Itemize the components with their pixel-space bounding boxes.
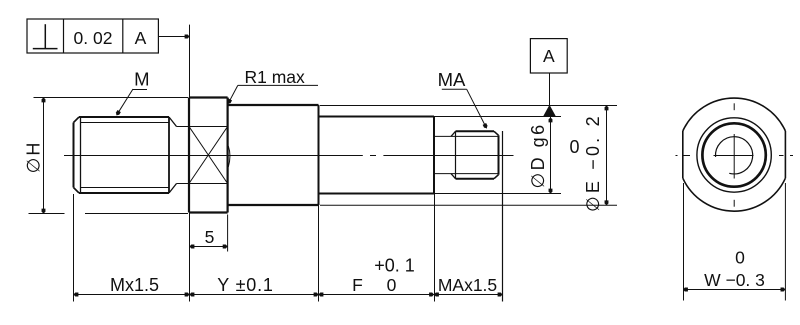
collar outline — [189, 98, 228, 213]
dimension E arrow up — [605, 106, 609, 111]
dimension E extension bottom — [320, 204, 617, 206]
dimension 5 arrow right — [223, 245, 228, 249]
svg-text:M: M — [134, 69, 149, 90]
chain extension line right — [502, 131, 504, 302]
dimension W extension right — [784, 183, 786, 301]
chain arrows at collar left — [185, 293, 190, 297]
dimension H extension top — [34, 97, 189, 99]
svg-text:∅H: ∅H — [24, 141, 44, 174]
dimension 5 line — [189, 246, 228, 248]
end view horizontal centerline right dash — [779, 155, 784, 157]
extension line from collar left face up to tolerance leader — [189, 25, 191, 97]
dimension D extension bottom — [434, 193, 561, 195]
large cylinder top — [228, 104, 319, 106]
thread MA runout bottom — [451, 174, 456, 179]
dimension H extension bottom — [29, 213, 65, 215]
thread MA crest bottom — [456, 178, 495, 180]
svg-text:MA: MA — [438, 69, 466, 90]
dimension E extension top — [320, 105, 617, 107]
end view center cross horizontal — [714, 155, 754, 157]
perpendicularity symbol — [33, 24, 58, 48]
dimension H arrow up — [42, 98, 46, 103]
svg-text:0: 0 — [387, 275, 397, 295]
thread M minor diameter top — [81, 122, 170, 124]
leader for R1 max — [228, 85, 318, 103]
chain extension line collar left — [189, 213, 191, 302]
svg-text:∅D g6: ∅D g6 — [528, 122, 548, 188]
end view outer flat right — [784, 131, 786, 178]
dimension D line — [550, 117, 552, 194]
end view outer top arc — [683, 98, 786, 131]
dimension W extension left — [683, 183, 685, 301]
chain extension line left — [73, 194, 75, 302]
end view horizontal centerline left dot — [676, 155, 678, 157]
middle cylinder end face — [433, 117, 435, 194]
chain arrow far left — [74, 293, 79, 297]
leader for MA — [442, 89, 487, 128]
svg-text:+0. 1: +0. 1 — [374, 256, 415, 276]
dimension W arrow right — [781, 288, 786, 292]
dimension D arrow down — [549, 189, 553, 194]
chain extension line shoulder — [434, 194, 436, 302]
leader for M — [117, 89, 147, 115]
dimension W line — [683, 289, 785, 291]
collar flat cross diagonal 2 — [189, 127, 228, 184]
dimension E line — [606, 105, 608, 205]
end view inner circle — [715, 137, 752, 174]
main axis centerline — [64, 155, 514, 157]
svg-text:MAx1.5: MAx1.5 — [438, 275, 497, 295]
chain arrows at step — [314, 293, 319, 297]
small thread neck and minor top — [434, 135, 499, 137]
thread M left face — [73, 123, 75, 188]
svg-text:∅E −0. 2: ∅E −0. 2 — [583, 113, 603, 212]
thread M minor diameter bottom — [81, 187, 170, 189]
svg-text:0. 02: 0. 02 — [74, 28, 113, 48]
svg-text:R1 max: R1 max — [245, 67, 306, 87]
chain dimension line — [74, 294, 503, 296]
dimension H line — [43, 97, 45, 214]
end view horizontal centerline left dash — [683, 155, 691, 157]
thread M crest top — [79, 116, 169, 118]
dimension 5 arrow left — [190, 245, 195, 249]
svg-text:A: A — [135, 28, 147, 48]
end view bold circle — [702, 123, 765, 186]
dimension 5 extension right — [227, 215, 229, 252]
chain extension line step — [318, 205, 320, 302]
dimension H arrow down — [42, 209, 46, 214]
thread MA end chamfer top — [494, 131, 499, 135]
svg-text:W −0. 3: W −0. 3 — [704, 270, 765, 290]
datum A box — [530, 39, 567, 73]
end view horizontal centerline right dot — [790, 155, 793, 157]
svg-text:A: A — [543, 46, 555, 66]
svg-text:0: 0 — [569, 137, 579, 157]
dimension H extension bottom right part — [85, 213, 188, 215]
leader from tolerance frame — [158, 36, 189, 38]
end view outer flat left — [682, 131, 684, 178]
thread MA end face — [498, 135, 500, 174]
datum stem — [549, 73, 551, 106]
tolerance frame box — [27, 19, 158, 53]
small thread neck and minor bottom — [434, 173, 499, 175]
end view outer bottom arc — [683, 178, 786, 211]
svg-text:Mx1.5: Mx1.5 — [110, 275, 159, 295]
thread M top-left chamfer — [74, 117, 80, 123]
thread MA runout top — [451, 131, 456, 136]
undercut neck bottom line through collar — [177, 183, 228, 185]
large cylinder step face — [318, 105, 320, 205]
svg-text:5: 5 — [205, 227, 215, 247]
dimension D extension top — [434, 116, 561, 118]
thread M bottom-left chamfer — [74, 188, 80, 194]
thread M runout bottom — [169, 184, 177, 194]
chain arrows at shoulder — [429, 293, 434, 297]
end view vertical centerline bottom dash — [733, 200, 735, 207]
chain arrow far right — [498, 293, 503, 297]
end view center cross vertical — [733, 134, 735, 179]
dimension D arrow up — [549, 118, 553, 123]
large cylinder bottom — [228, 204, 319, 206]
thread M runout top — [169, 117, 177, 127]
undercut neck top line through collar — [177, 126, 228, 128]
end view vertical centerline top dash — [733, 103, 735, 110]
thread MA crest top — [456, 130, 495, 132]
dimension W arrow left — [683, 288, 688, 292]
middle cylinder top — [319, 116, 435, 118]
thread M crest bottom — [79, 192, 169, 194]
middle cylinder bottom — [319, 193, 435, 195]
thread MA start line — [455, 131, 457, 178]
thread M chamfer circle line — [80, 117, 82, 193]
svg-text:Y ±0.1: Y ±0.1 — [217, 275, 273, 295]
thread M right face — [168, 117, 170, 193]
dimension E arrow down — [605, 200, 609, 205]
datum filled triangle — [543, 105, 556, 117]
collar flat cross diagonal 1 — [189, 127, 228, 184]
end view ring circle — [697, 118, 771, 192]
svg-text:0: 0 — [735, 248, 745, 268]
svg-text:F: F — [352, 275, 363, 295]
thread MA end chamfer bottom — [494, 175, 499, 179]
relief arc right of collar — [228, 146, 230, 167]
